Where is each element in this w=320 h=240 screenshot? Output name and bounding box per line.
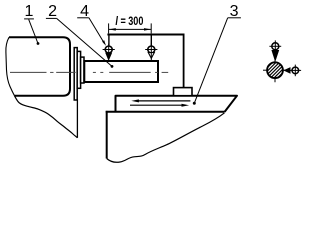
leader 4 <box>89 18 104 43</box>
stem of indicator A <box>108 35 110 47</box>
motion arrow right <box>130 104 184 106</box>
dimension line l=300 <box>109 28 152 30</box>
section detail: mandrel cross-section (hatched circle) <box>263 48 287 92</box>
bed top edge <box>106 111 225 113</box>
indicator bracket top bar <box>107 34 184 36</box>
spindle flange ring B <box>77 51 80 88</box>
base break below headstock (wavy) <box>15 96 78 138</box>
svg-text:2: 2 <box>48 3 57 20</box>
leader 2 <box>57 18 112 66</box>
leader 3 <box>194 18 227 103</box>
stem of indicator B <box>150 35 152 47</box>
detail indicator right <box>283 65 301 77</box>
detail indicator top <box>269 40 281 62</box>
spindle flange ring C <box>81 57 84 83</box>
svg-text:l = 300: l = 300 <box>115 14 143 28</box>
bed left edge <box>106 111 108 159</box>
test mandrel 2 <box>84 61 158 82</box>
headstock body 1 <box>6 37 70 96</box>
headstock break line (wavy left edge) <box>6 37 15 96</box>
svg-text:1: 1 <box>25 3 34 20</box>
spindle flange ring A <box>74 48 77 100</box>
indicator bracket column <box>183 35 185 88</box>
dimension extension line left <box>108 23 110 33</box>
bracket foot block <box>174 88 193 96</box>
spindle axis centerline <box>10 71 168 73</box>
dial indicator A (4) <box>103 44 115 61</box>
dimension extension line right <box>150 23 152 33</box>
dial indicator B <box>145 44 157 61</box>
leader 1 <box>29 19 38 43</box>
bed break line (wavy) <box>107 113 225 163</box>
table slab 3 <box>116 96 238 112</box>
motion arrow left <box>137 100 190 102</box>
base break vertical edge <box>76 100 78 138</box>
